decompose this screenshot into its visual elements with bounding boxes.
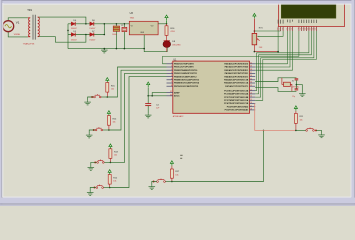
push button SW-R17 [153, 179, 166, 183]
junction node R11 [295, 130, 297, 132]
svg-text:22p: 22p [292, 96, 295, 98]
wire button R11 to ground [316, 130, 322, 133]
ground symbol R12 [87, 191, 94, 195]
wire R12 lower lead [109, 184, 111, 187]
svg-text:VSINE: VSINE [14, 34, 21, 36]
U1 right pin numbers [250, 62, 252, 110]
wire LCD D4 to U1 [255, 31, 309, 91]
wire secondary top tap to bridge AC+ [39, 17, 86, 24]
svg-text:30: 30 [170, 94, 172, 96]
svg-text:6: 6 [171, 78, 172, 80]
U1 left pin stubs [167, 64, 173, 96]
diode D5 [71, 33, 75, 37]
ground symbol R13 [88, 166, 95, 170]
svg-text:AVCC: AVCC [174, 95, 180, 98]
capacitor C1 [295, 79, 299, 80]
svg-text:PA4/ADC4/PCINT4/XCK1: PA4/ADC4/PCINT4/XCK1 [224, 75, 249, 78]
wire button R12 to ground [90, 188, 96, 192]
ground symbol R11 button [318, 133, 325, 137]
capacitor C2 [295, 89, 299, 90]
resistor R11 body [294, 114, 297, 124]
diode D6 [90, 22, 94, 26]
svg-text:PA2/ADC2/PCINT2/RXD1: PA2/ADC2/PCINT2/RXD1 [224, 69, 249, 72]
svg-text:PC4/TDO/PCINT20/OC1B: PC4/TDO/PCINT20/OC1B [224, 102, 249, 105]
capacitor C4 [147, 96, 149, 104]
junction VDD tap [254, 30, 256, 32]
svg-text:4: 4 [171, 72, 172, 74]
svg-text:PC6/TOSC1/PCINT22/A1: PC6/TOSC1/PCINT22/A1 [225, 109, 249, 112]
wire U3 VO output [158, 23, 166, 25]
ground symbol row5 [149, 185, 156, 189]
wire LCD E to U1 PA2 [255, 31, 292, 70]
power arrow R17 [170, 161, 173, 166]
junction VSS net [277, 51, 279, 53]
push button SW-R12 [94, 185, 104, 189]
svg-text:LED-RED: LED-RED [172, 45, 181, 47]
svg-text:1000u: 1000u [112, 34, 117, 36]
svg-text:10k: 10k [113, 180, 116, 182]
capacitor C5 [123, 24, 125, 28]
svg-text:28: 28 [250, 109, 252, 111]
stray text mark [180, 155, 182, 156]
wire R15 lower lead [106, 92, 108, 97]
svg-text:22: 22 [250, 89, 252, 91]
wire bridge right vertical [103, 24, 105, 35]
wire button R15 to junction [101, 96, 107, 98]
voltage regulator U3 7805 [129, 21, 158, 35]
resistor R16 body [165, 26, 168, 36]
power +5V arrow supply [165, 15, 168, 20]
svg-text:10k: 10k [111, 88, 114, 90]
junction U3 gnd on rail [143, 48, 145, 50]
svg-text:14: 14 [314, 28, 316, 30]
svg-text:10k: 10k [175, 175, 178, 177]
svg-text:V1: V1 [16, 20, 20, 24]
svg-text:32: 32 [170, 91, 172, 93]
junction RV1 bottom [254, 51, 256, 53]
wire button row5 to ground [152, 182, 157, 186]
junction AVCC node [147, 95, 149, 97]
svg-text:ATMEGA32: ATMEGA32 [173, 115, 184, 118]
svg-text:10k: 10k [113, 122, 116, 124]
svg-text:PA5/ADC5/PCINT5/OC1B: PA5/ADC5/PCINT5/OC1B [224, 79, 249, 82]
junction caps mid [296, 84, 298, 86]
svg-text:PB0/XCK/T0/PCINT8: PB0/XCK/T0/PCINT8 [174, 64, 195, 66]
wire staircase row1 to PB1 [107, 67, 166, 97]
wire AREF [152, 93, 166, 96]
svg-text:PC0/SCL/PCINT16/OC3A: PC0/SCL/PCINT16/OC3A [224, 89, 248, 92]
AC source V1 wiring loop [8, 18, 28, 21]
LCD display LCD1 panel [279, 2, 345, 27]
junction bridge + output [104, 23, 106, 25]
svg-text:36: 36 [250, 75, 252, 77]
svg-text:2: 2 [171, 66, 172, 68]
svg-text:PA0/ADC0/PCINT0/XCK0: PA0/ADC0/PCINT0/XCK0 [224, 63, 249, 66]
power arrow R13 [109, 144, 112, 149]
svg-text:PC5/TDI/PCINT21/ND2: PC5/TDI/PCINT21/ND2 [227, 106, 249, 108]
junction bridge right [104, 34, 106, 36]
transformer TR1 [28, 15, 39, 40]
power arrow R12 [108, 170, 111, 175]
wire PB0 stub link [162, 63, 166, 65]
wire R13 lower lead [109, 158, 111, 162]
svg-text:37: 37 [250, 72, 252, 74]
junction node bridge left [67, 30, 69, 32]
svg-text:5: 5 [171, 75, 172, 77]
svg-text:10k: 10k [114, 155, 117, 157]
wire LCD VSS down [277, 31, 279, 52]
svg-text:PC2/TCK/PCINT18/OC4B: PC2/TCK/PCINT18/OC4B [224, 96, 249, 99]
svg-text:33: 33 [250, 85, 252, 87]
diode D4 [71, 22, 75, 26]
svg-text:PC3/TMS/PCINT19/OC2A: PC3/TMS/PCINT19/OC2A [224, 99, 249, 102]
wire R14 lower lead [108, 125, 110, 130]
power arrow R14 [107, 111, 110, 116]
wire LCD D5 to U1 [255, 31, 311, 94]
svg-text:25: 25 [250, 99, 252, 101]
svg-text:PA3/ADC3/PCINT3/TXD1: PA3/ADC3/PCINT3/TXD1 [225, 72, 249, 75]
wire bridge left vertical to ground rail [67, 24, 69, 49]
wire button R15 to ground [88, 97, 94, 101]
svg-text:PB5/MOSI/OC2A/PCINT13: PB5/MOSI/OC2A/PCINT13 [174, 79, 200, 82]
svg-text:38: 38 [250, 69, 252, 71]
svg-text:1: 1 [171, 62, 172, 64]
microcontroller U1 body [173, 61, 250, 113]
wire button R14 to junction [103, 129, 109, 131]
wire LCD VDD to +5 vertical [254, 30, 280, 32]
wire arrow to RV1 top [253, 19, 255, 34]
svg-text:27: 27 [250, 105, 252, 107]
svg-text:10k: 10k [300, 119, 303, 121]
svg-text:CRYSTAL: CRYSTAL [292, 85, 300, 88]
svg-text:PB1/CLK/T1/PCINT9: PB1/CLK/T1/PCINT9 [174, 67, 194, 69]
push button SW-R13 [94, 159, 104, 163]
wire LCD VEE to pot wiper [258, 31, 284, 36]
svg-text:35: 35 [250, 78, 252, 80]
wire staircase row3 to PB3 [110, 73, 166, 162]
svg-text:PB6/MISO/OC2B/PCINT14: PB6/MISO/OC2B/PCINT14 [174, 82, 200, 85]
svg-text:X1: X1 [292, 81, 294, 83]
U1 left pin names [174, 64, 200, 98]
wire ground rail [68, 47, 167, 51]
capacitor C6 smoothing [115, 24, 117, 26]
svg-text:39: 39 [250, 66, 252, 68]
svg-text:PA1/ADC1/PCINT1/TXD0: PA1/ADC1/PCINT1/TXD0 [225, 66, 249, 69]
wire button R12 to junction [104, 187, 110, 189]
junction node R17 [171, 181, 173, 183]
svg-text:40: 40 [250, 62, 252, 64]
wire row5 junction to bottom-right net [172, 130, 264, 181]
wire U1 pin PC4 down to R11 node [255, 104, 296, 131]
wire button R14 to ground [89, 130, 95, 134]
resistor R12 body [108, 175, 111, 185]
svg-text:PA6/ADC6/PCINT6/OC1A: PA6/ADC6/PCINT6/OC1A [224, 82, 249, 85]
wire long rail PB0 to LCD D0 [162, 31, 299, 64]
svg-text:26: 26 [250, 102, 252, 104]
AC voltage source V1 [3, 21, 14, 32]
power arrow R15 [106, 78, 109, 83]
wire button R13 to ground [91, 162, 97, 166]
svg-text:TR1: TR1 [27, 8, 32, 12]
U1 left pin numbers [170, 62, 172, 96]
junction node R13 [110, 162, 112, 164]
svg-text:8: 8 [171, 85, 172, 87]
diode D7 [90, 33, 94, 37]
wire arrow to VO node [166, 20, 168, 24]
svg-text:3: 3 [171, 69, 172, 71]
svg-text:7: 7 [171, 82, 172, 84]
LCD pin numbers [277, 28, 316, 30]
svg-text:10: 10 [304, 28, 306, 30]
svg-text:PB4/SS/OC0B/PCINT12: PB4/SS/OC0B/PCINT12 [174, 75, 197, 78]
resistor R13 body [109, 149, 112, 159]
svg-text:24: 24 [250, 96, 252, 98]
svg-text:PB7/SCK/OC3B/PCINT15: PB7/SCK/OC3B/PCINT15 [174, 86, 199, 88]
svg-text:1N4007: 1N4007 [71, 40, 77, 42]
wire U3 GND pin to ground rail [143, 35, 145, 49]
wire button row5 to junction [165, 181, 172, 183]
wire staircase row2 to PB2 [109, 70, 167, 130]
wire staircase row4 to PB4 [110, 77, 167, 188]
svg-text:PB2/INT2/AIN0/PCINT10: PB2/INT2/AIN0/PCINT10 [174, 69, 198, 72]
power arrow R11 [294, 106, 297, 111]
junction VO node [166, 23, 168, 25]
LCD pin name marks [278, 20, 316, 24]
wire secondary bottom tap to bridge AC- [39, 35, 86, 43]
ground symbol R15 [84, 101, 91, 105]
wire LCD RW to U1 PA1 [255, 31, 290, 67]
U1 right pin stubs [250, 64, 256, 110]
svg-text:PB3/OC0/AIN1/PCINT11: PB3/OC0/AIN1/PCINT11 [174, 72, 198, 75]
push button SW-R14 [93, 127, 103, 131]
junction bottom-right net [263, 130, 265, 132]
junction bridge AC bottom [85, 34, 87, 36]
wire caps node to ground [296, 85, 302, 93]
svg-text:1N4007: 1N4007 [89, 28, 95, 30]
push button SW-R15 [91, 94, 101, 98]
resistor R15 body [106, 83, 109, 93]
wire R16 to LED [166, 35, 168, 41]
crystal X1 [282, 78, 292, 92]
wire R11 junction to button [296, 129, 306, 131]
U1 right pin names [224, 63, 249, 112]
svg-text:C5: C5 [121, 25, 123, 27]
resistor R14 body [107, 116, 110, 126]
ground symbol supply rail [101, 49, 108, 53]
resistor R17 body [170, 169, 173, 178]
svg-text:34: 34 [250, 82, 252, 84]
LCD pin stubs [278, 27, 316, 32]
LCD screen [281, 4, 336, 18]
wire U1 XTAL1 to crystal bottom [255, 88, 296, 92]
wire bridge top rail [68, 23, 129, 25]
wire RV1 bottom [254, 45, 278, 52]
junction node R12 [109, 187, 111, 189]
svg-text:PA7/ADC7/PCINT7/ICP1: PA7/ADC7/PCINT7/ICP1 [225, 85, 249, 88]
svg-text:TRAN-2P3S: TRAN-2P3S [23, 43, 35, 46]
wire AVCC node [148, 87, 166, 96]
ground symbol R14 [86, 134, 93, 138]
junction bridge AC top [85, 23, 87, 25]
ground symbol C4 [145, 114, 152, 118]
power +5V arrow AVCC [147, 82, 150, 87]
svg-text:1N4007: 1N4007 [89, 40, 95, 42]
LED D8 [163, 41, 171, 48]
wire RV1 wiper to VEE net [258, 35, 260, 37]
wire R11 lower lead [295, 123, 297, 130]
wire LCD D6 to U1 [255, 31, 314, 97]
wire LED cathode to ground jog [166, 47, 168, 51]
junction node R15 [107, 96, 109, 98]
wire bridge mid rail [68, 34, 104, 36]
svg-text:AREF: AREF [174, 91, 180, 94]
wire U1 XTAL2 to crystal top [255, 78, 296, 82]
svg-text:PC1/SDA/PCINT17/OC4A: PC1/SDA/PCINT17/OC4A [224, 93, 249, 96]
resistor R16 [166, 24, 168, 26]
wire LCD RS to U1 PA0 [255, 31, 287, 64]
wire R17 lower lead [171, 178, 173, 181]
push button SW-R11 [306, 127, 317, 131]
wire caps middle node [295, 80, 297, 88]
svg-text:23: 23 [250, 93, 252, 95]
wire button R13 to junction [104, 161, 110, 163]
wire LCD D7 to U1 [255, 31, 316, 100]
ground symbol crystal [299, 92, 306, 96]
svg-text:1N4007: 1N4007 [71, 28, 77, 30]
junction node R14 [108, 129, 110, 131]
potentiometer RV1 [252, 33, 260, 44]
power +5V arrow RV1 [253, 13, 256, 18]
